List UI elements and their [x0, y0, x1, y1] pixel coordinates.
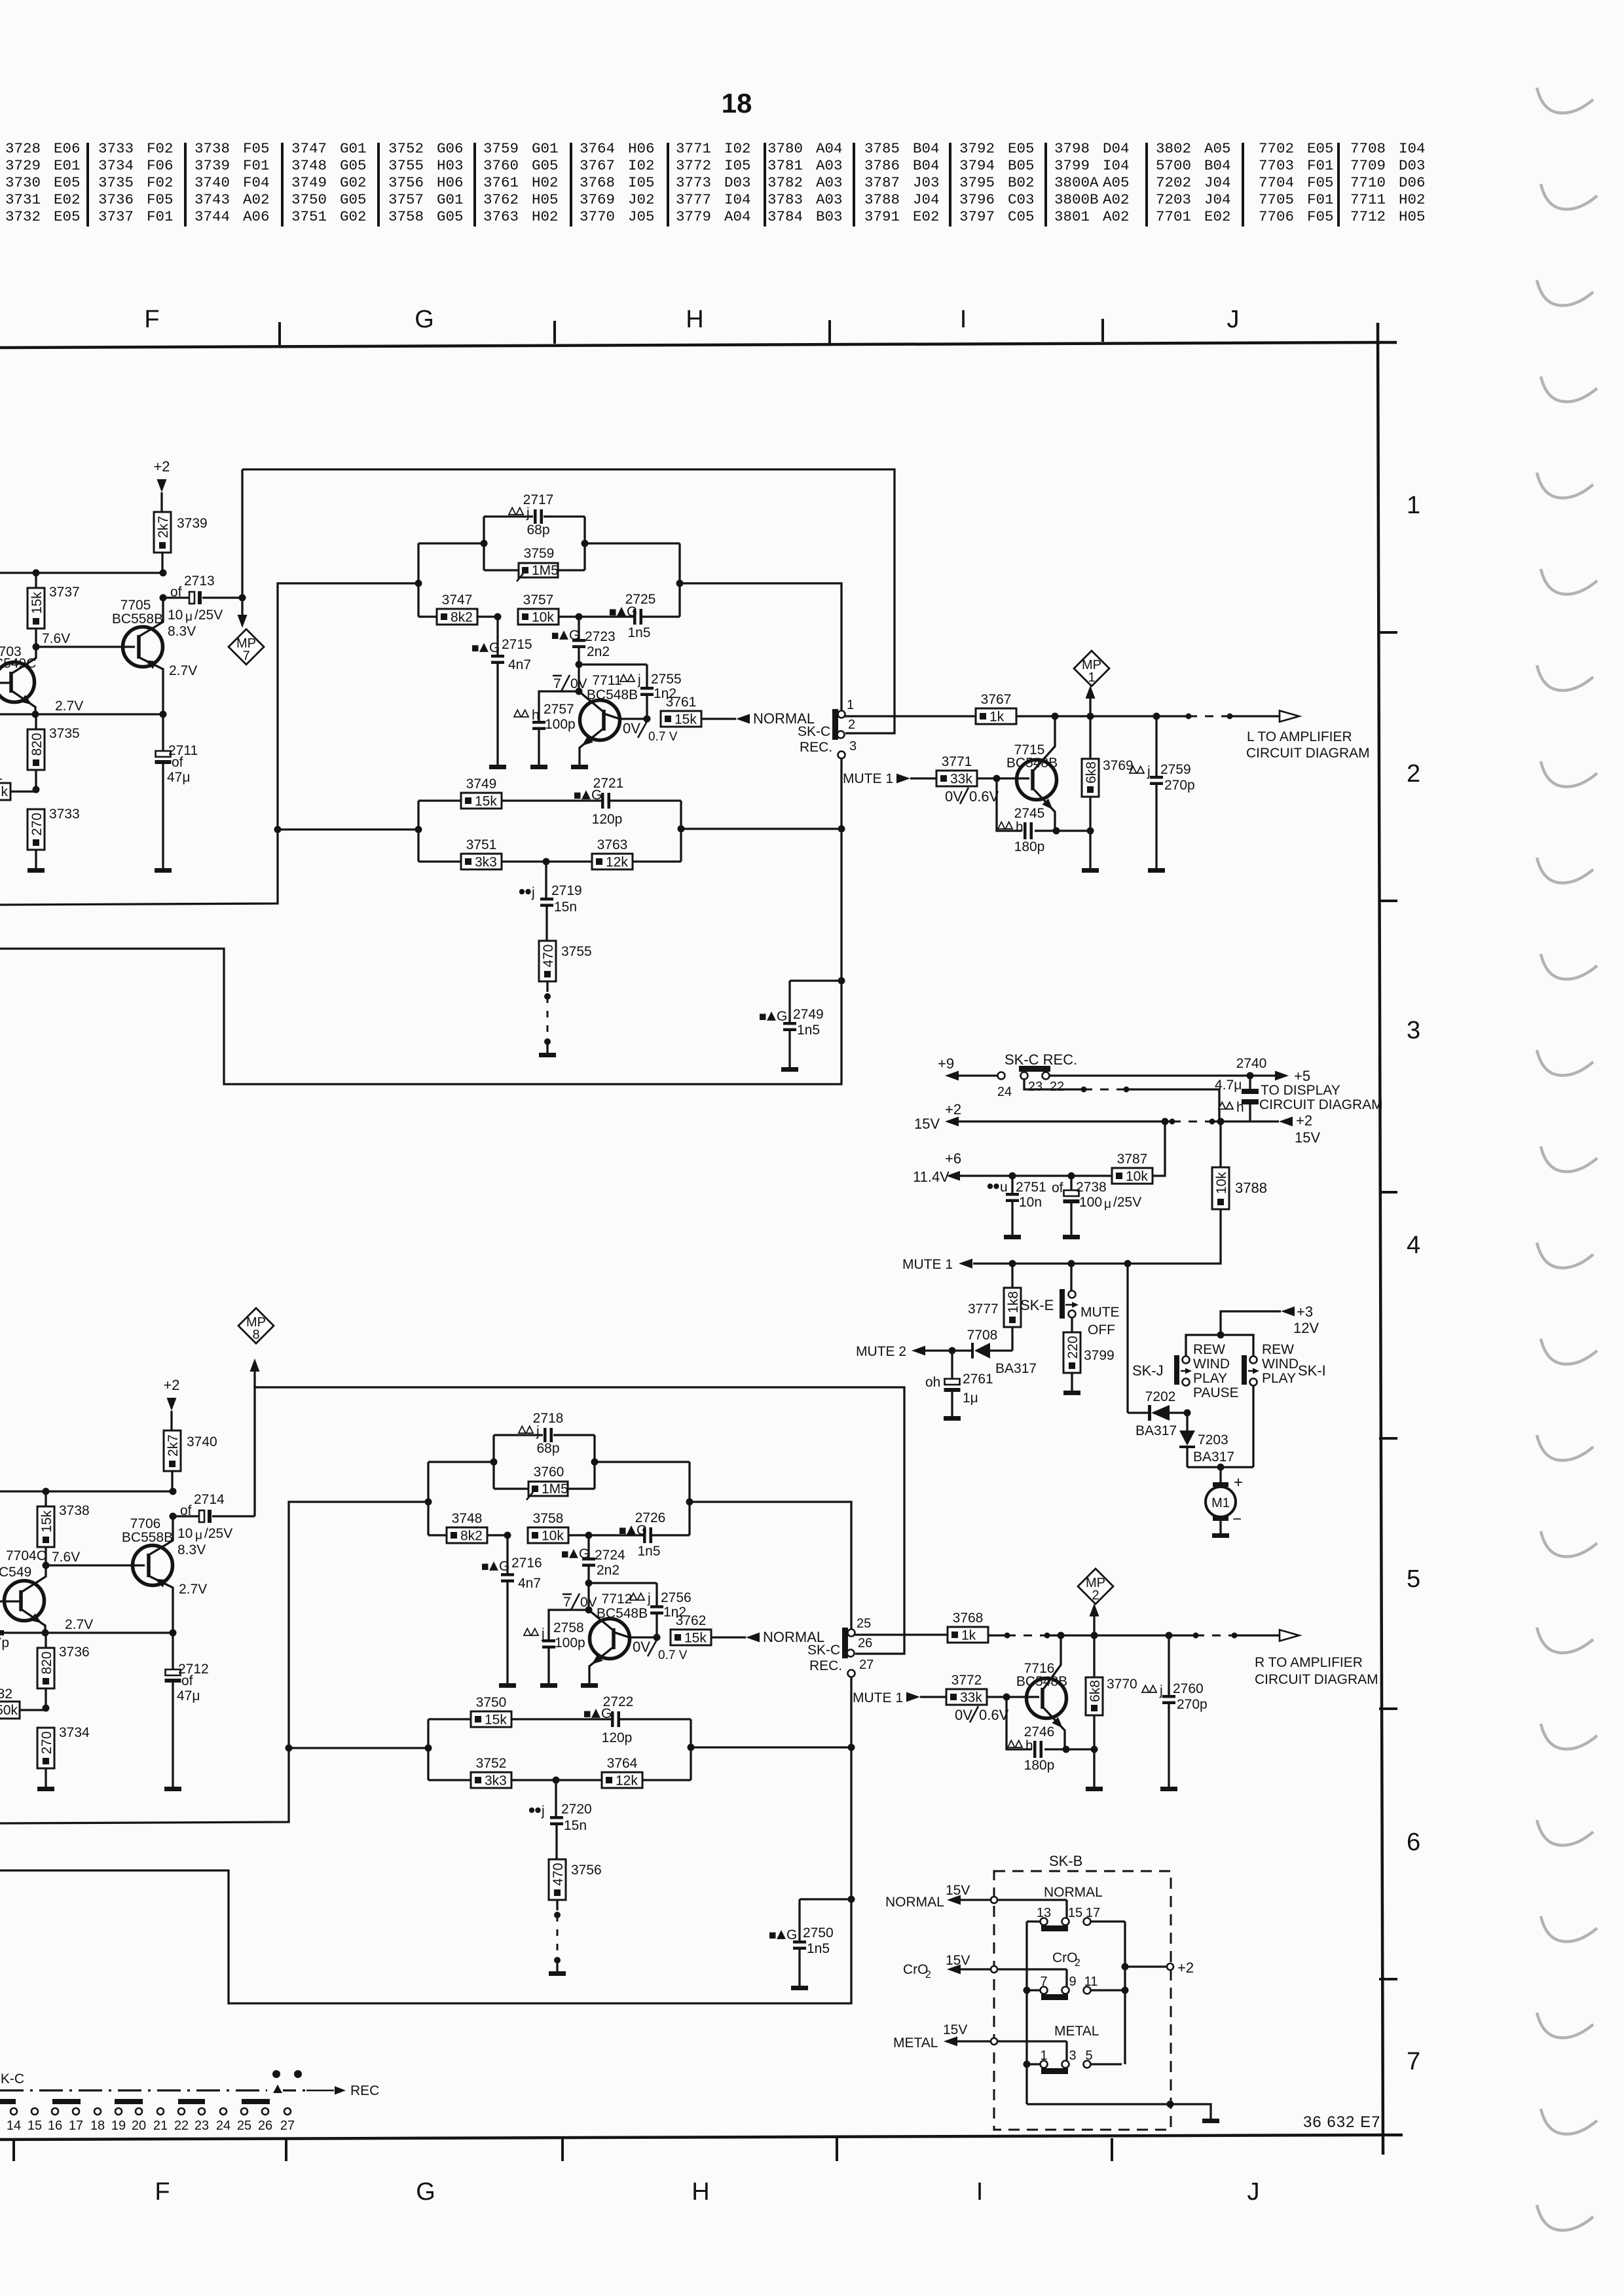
switch SK-E: [1020, 1264, 1079, 1319]
svg-text:1n5: 1n5: [627, 625, 650, 640]
svg-text:7712: 7712: [602, 1592, 633, 1607]
wire lower loop L input: [0, 583, 418, 905]
wire motor node: [1187, 1385, 1253, 1483]
svg-text:15k: 15k: [39, 1510, 54, 1533]
svg-text:2: 2: [848, 718, 855, 732]
capacitor 2721 120p: [574, 776, 681, 827]
svg-text:3783: 3783: [767, 191, 803, 208]
svg-text:REC.: REC.: [809, 1658, 842, 1673]
svg-text:h: h: [1236, 1100, 1244, 1115]
svg-text:2761: 2761: [963, 1372, 993, 1387]
svg-text:2758: 2758: [553, 1620, 584, 1635]
svg-text:2760: 2760: [1173, 1681, 1204, 1696]
svg-text:3768: 3768: [580, 174, 615, 191]
svg-text:3787: 3787: [864, 174, 900, 191]
svg-text:3800A: 3800A: [1054, 174, 1099, 191]
svg-text:G: G: [489, 640, 500, 655]
svg-text:3737: 3737: [98, 208, 134, 225]
svg-text:3798: 3798: [1054, 140, 1090, 157]
svg-text:120p: 120p: [602, 1730, 633, 1745]
svg-text:4.7μ: 4.7μ: [1215, 1078, 1242, 1093]
label 7/0V node R: [563, 1594, 597, 1610]
svg-text:F02: F02: [147, 174, 174, 191]
svg-text:27: 27: [859, 1658, 874, 1672]
ground 2758: [540, 1683, 557, 1688]
svg-text:15V: 15V: [1295, 1129, 1320, 1146]
svg-text:SK-B: SK-B: [1049, 1853, 1082, 1869]
svg-text:+5: +5: [1294, 1068, 1310, 1084]
grid letters bottom: [155, 2178, 1259, 2206]
grid row numbers: [1407, 492, 1420, 2075]
transistor 7715 BC548B: [1006, 716, 1058, 831]
svg-text:h: h: [532, 708, 540, 723]
svg-text:7203: 7203: [1198, 1432, 1228, 1448]
test point MP7: [229, 469, 264, 665]
svg-text:3747: 3747: [442, 592, 473, 608]
wire output row L: [1016, 711, 1299, 722]
node base 7705 / 7.6V: [33, 631, 136, 651]
svg-text:18: 18: [722, 88, 752, 118]
svg-text:3748: 3748: [291, 157, 327, 174]
svg-text:G01: G01: [340, 140, 367, 157]
network 2 L outline: [418, 801, 841, 862]
svg-text:R TO AMPLIFIER: R TO AMPLIFIER: [1255, 1655, 1363, 1670]
svg-text:C03: C03: [1008, 191, 1035, 208]
svg-text:1k: 1k: [989, 710, 1005, 725]
resistor 3747 8k2: [418, 592, 498, 625]
arrow MUTE 2: [856, 1344, 925, 1359]
svg-text:3731: 3731: [5, 191, 41, 208]
svg-text:k: k: [1, 784, 9, 799]
svg-text:BA317: BA317: [1135, 1423, 1177, 1438]
svg-text:25: 25: [237, 2119, 251, 2133]
svg-text:3729: 3729: [5, 157, 41, 174]
ground 3799: [1063, 1391, 1080, 1395]
svg-text:15k: 15k: [485, 1713, 507, 1728]
svg-text:3740: 3740: [187, 1434, 217, 1449]
svg-text:4n7: 4n7: [508, 657, 531, 672]
component location table: [5, 140, 1426, 227]
svg-text:A04: A04: [724, 208, 751, 225]
label 0V/0.6V R: [955, 1706, 1009, 1723]
svg-text:3: 3: [849, 739, 857, 754]
svg-text:I02: I02: [628, 157, 655, 174]
network 2 L input wire: [274, 826, 422, 833]
label 0V/0.6V: [945, 788, 999, 805]
svg-text:of: of: [181, 1673, 193, 1688]
svg-text:16: 16: [48, 2119, 62, 2133]
svg-text:3802: 3802: [1156, 140, 1191, 157]
svg-text:3738: 3738: [59, 1503, 90, 1518]
svg-text:of: of: [170, 585, 182, 600]
svg-text:10k: 10k: [1214, 1172, 1229, 1194]
transistor 7706 BC558B: [122, 1516, 207, 1633]
svg-text:J02: J02: [628, 191, 655, 208]
wire SK-C contact27 loop R: [0, 1677, 855, 2003]
ground 3770: [1086, 1787, 1103, 1791]
resistor 3759 1M5 (adjustable): [484, 546, 585, 581]
svg-text:15k: 15k: [475, 794, 497, 809]
svg-text:D04: D04: [1103, 140, 1130, 157]
svg-text:3759: 3759: [524, 546, 555, 561]
svg-text:3756: 3756: [571, 1863, 602, 1878]
svg-text:REW: REW: [1193, 1342, 1225, 1357]
wire SK-C contact3 loop L: [0, 758, 845, 1084]
svg-text:27: 27: [280, 2119, 295, 2133]
svg-text:3796: 3796: [959, 191, 995, 208]
svg-text:470: 470: [541, 944, 556, 967]
svg-text:j: j: [1147, 764, 1151, 779]
switch SK-J: [1132, 1355, 1192, 1386]
svg-text:G: G: [637, 1523, 647, 1538]
filter block L outline: [418, 517, 680, 617]
svg-text:24: 24: [216, 2119, 231, 2133]
wire top rail L to SK-C contact 2: [242, 469, 895, 733]
svg-text:B05: B05: [1008, 157, 1035, 174]
svg-text:0V: 0V: [580, 1595, 597, 1610]
svg-text:9: 9: [1069, 1975, 1076, 1989]
svg-text:7: 7: [553, 676, 561, 691]
svg-text:3747: 3747: [291, 140, 327, 157]
svg-text:7709: 7709: [1350, 157, 1386, 174]
svg-text:10k: 10k: [532, 610, 554, 625]
svg-text:3768: 3768: [953, 1611, 984, 1626]
svg-text:15: 15: [1068, 1906, 1082, 1920]
svg-text:3760: 3760: [534, 1465, 564, 1480]
svg-text:of: of: [172, 755, 183, 770]
svg-text:8k2: 8k2: [451, 610, 473, 625]
capacitor 2725 1n5: [576, 592, 680, 640]
svg-text:E05: E05: [54, 174, 81, 191]
svg-text:5: 5: [1407, 1565, 1420, 1593]
capacitor 2732 stub (clipped): [0, 1630, 9, 1650]
svg-text:G05: G05: [532, 157, 559, 174]
wire +3 12V feed: [1186, 1303, 1319, 1357]
svg-text:1n5: 1n5: [637, 1544, 660, 1559]
svg-text:/25V: /25V: [204, 1526, 232, 1541]
svg-text:μ: μ: [185, 610, 193, 624]
svg-text:oh: oh: [925, 1375, 940, 1390]
resistor 3764 12k: [553, 1756, 692, 1789]
svg-text:3739: 3739: [194, 157, 230, 174]
capacitor 2750 1n5: [769, 1899, 851, 1986]
svg-text:−: −: [1232, 1510, 1242, 1528]
wire collector row 7705: [0, 570, 167, 577]
transistor 7703 BC549C: [0, 644, 36, 714]
svg-text:3770: 3770: [580, 208, 615, 225]
svg-text:E05: E05: [54, 208, 81, 225]
resistor 3787 10k: [1112, 1121, 1165, 1184]
svg-text:I: I: [976, 2178, 984, 2206]
svg-text:6k8: 6k8: [1084, 761, 1099, 784]
svg-text:2: 2: [1075, 1958, 1080, 1969]
svg-text:270: 270: [39, 1731, 54, 1754]
svg-text:22: 22: [174, 2119, 189, 2133]
svg-text:3758: 3758: [388, 208, 424, 225]
svg-text:3770: 3770: [1107, 1677, 1137, 1692]
svg-text:3786: 3786: [864, 157, 900, 174]
svg-text:REC.: REC.: [800, 740, 832, 755]
svg-text:BA317: BA317: [995, 1361, 1037, 1376]
ground 2749: [781, 1067, 798, 1072]
svg-text:2751: 2751: [1016, 1180, 1046, 1195]
svg-text:2.7V: 2.7V: [65, 1617, 93, 1632]
svg-text:7712: 7712: [1350, 208, 1386, 225]
svg-text:2: 2: [925, 1969, 931, 1980]
wire emitter 7705 ground leg: [0, 699, 167, 718]
svg-text:A06: A06: [243, 208, 270, 225]
svg-text:3772: 3772: [951, 1673, 982, 1688]
node filter input R: [425, 1499, 432, 1506]
label SK-C REC upper: [798, 724, 832, 755]
svg-text:PLAY: PLAY: [1262, 1371, 1296, 1386]
svg-text:CIRCUIT DIAGRAM: CIRCUIT DIAGRAM: [1246, 746, 1370, 761]
svg-text:E02: E02: [54, 191, 81, 208]
svg-text:I04: I04: [1399, 140, 1426, 157]
svg-text:820: 820: [29, 733, 45, 756]
svg-text:470: 470: [551, 1863, 566, 1886]
label MUTE OFF: [1080, 1305, 1120, 1338]
svg-text:G01: G01: [437, 191, 464, 208]
svg-text:7202: 7202: [1145, 1389, 1176, 1404]
svg-text:C05: C05: [1008, 208, 1035, 225]
svg-text:15V: 15V: [946, 1883, 970, 1898]
ground 2757: [530, 765, 547, 769]
svg-text:MUTE 2: MUTE 2: [856, 1344, 906, 1359]
svg-text:7706: 7706: [130, 1516, 161, 1531]
svg-text:17: 17: [1086, 1906, 1100, 1920]
node base 7706 / 7.6V: [43, 1550, 145, 1569]
svg-text:A04: A04: [816, 140, 843, 157]
svg-text:0.6V: 0.6V: [979, 1707, 1009, 1723]
svg-text:3752: 3752: [476, 1756, 507, 1771]
resistor 3749 15k: [418, 776, 601, 809]
wire MUTE 1 row: [902, 1257, 1132, 1272]
svg-text:21: 21: [153, 2119, 168, 2133]
wire SK-B verticals: [1027, 1922, 1125, 2104]
svg-text:7704C: 7704C: [6, 1548, 46, 1563]
svg-text:of: of: [180, 1503, 192, 1518]
svg-text:36 632 E7: 36 632 E7: [1303, 2113, 1380, 2131]
svg-text:3738: 3738: [194, 140, 230, 157]
ground 3769: [1082, 868, 1099, 873]
svg-text:A03: A03: [816, 157, 843, 174]
ground emitter 7712: [581, 1683, 598, 1688]
capacitor 2712 47u: [165, 1633, 209, 1787]
svg-text:2757: 2757: [544, 702, 574, 717]
resistor 3770 6k8: [1086, 1635, 1137, 1787]
svg-text:G01: G01: [532, 140, 559, 157]
svg-text:180p: 180p: [1014, 839, 1045, 854]
svg-text:+: +: [1234, 1474, 1243, 1491]
svg-text:+2: +2: [153, 458, 170, 475]
capacitor 2746 180p: [1006, 1697, 1098, 1773]
svg-text:BC548B: BC548B: [597, 1606, 648, 1621]
svg-text:7706: 7706: [1259, 208, 1294, 225]
svg-text:7: 7: [563, 1595, 571, 1610]
svg-text:BC548B: BC548B: [1006, 756, 1058, 771]
svg-text:0.7 V: 0.7 V: [648, 730, 678, 744]
switch SK-C mechanical line: [0, 2070, 379, 2098]
svg-text:3780: 3780: [767, 140, 803, 157]
wire CrO2 feed: [903, 1953, 1067, 1987]
svg-text:F01: F01: [147, 208, 174, 225]
svg-text:18: 18: [90, 2119, 105, 2133]
wire MUTE1 to 7202: [1126, 1264, 1128, 1413]
svg-text:47μ: 47μ: [167, 770, 190, 785]
capacitor 2720 15n: [529, 1780, 592, 1859]
svg-text:3755: 3755: [388, 157, 424, 174]
label 0V/0.7V R: [633, 1639, 688, 1662]
svg-text:1μ: 1μ: [963, 1391, 978, 1406]
svg-text:H: H: [692, 2178, 709, 2206]
svg-text:SK-E: SK-E: [1020, 1297, 1054, 1313]
svg-text:F05: F05: [243, 140, 270, 157]
svg-text:3760: 3760: [483, 157, 519, 174]
svg-text:H02: H02: [532, 174, 559, 191]
svg-text:M1: M1: [1211, 1496, 1230, 1510]
label L TO AMPLIFIER: [1246, 729, 1370, 761]
svg-text:G: G: [569, 628, 580, 643]
svg-text:2746: 2746: [1024, 1724, 1055, 1740]
svg-text:3779: 3779: [676, 208, 711, 225]
node filter input L: [415, 580, 422, 587]
svg-text:2716: 2716: [511, 1556, 542, 1571]
resistor 3731 1k (clipped): [0, 768, 36, 800]
arrow MUTE 1 input R: [853, 1690, 946, 1705]
svg-text:15k: 15k: [684, 1631, 707, 1646]
svg-text:1k8: 1k8: [1006, 1291, 1021, 1313]
svg-text:j: j: [536, 1424, 540, 1439]
svg-text:1: 1: [0, 768, 3, 783]
resistor 3738 15k: [37, 1491, 90, 1565]
svg-text:7710: 7710: [1350, 174, 1386, 191]
resistor 3771 33k: [936, 754, 1029, 787]
svg-text:BC549: BC549: [0, 1565, 31, 1580]
svg-text:SK-C: SK-C: [0, 2071, 24, 2086]
svg-text:7704: 7704: [1259, 174, 1294, 191]
svg-text:CIRCUIT DIAGRAM: CIRCUIT DIAGRAM: [1259, 1097, 1383, 1112]
resistor 3757 10k: [494, 592, 580, 625]
svg-text:MUTE: MUTE: [1080, 1305, 1120, 1320]
svg-text:3728: 3728: [5, 140, 41, 157]
svg-text:μ: μ: [195, 1529, 202, 1542]
svg-text:270p: 270p: [1164, 778, 1195, 793]
svg-text:3750: 3750: [291, 191, 327, 208]
ground 3734: [37, 1787, 54, 1791]
svg-text:2745: 2745: [1014, 806, 1045, 821]
ground 2712: [164, 1787, 181, 1791]
arrow NORMAL L: [736, 710, 815, 727]
svg-text:E05: E05: [1008, 140, 1035, 157]
resistor 3735 820: [28, 714, 80, 790]
resistor 3799 220: [1063, 1317, 1115, 1391]
svg-text:3740: 3740: [194, 174, 230, 191]
svg-text:8.3V: 8.3V: [168, 624, 196, 639]
svg-text:REC: REC: [350, 2083, 379, 2098]
ground 2750: [791, 1986, 808, 1990]
test point MP1: [1074, 651, 1109, 716]
svg-text:J: J: [1227, 306, 1240, 333]
svg-text:+2: +2: [163, 1377, 179, 1393]
switch SK-I: [1242, 1355, 1326, 1386]
capacitor 2717 68p: [484, 492, 585, 538]
svg-text:8.3V: 8.3V: [177, 1542, 206, 1558]
svg-text:BC548B: BC548B: [1016, 1674, 1067, 1689]
svg-text:G06: G06: [437, 140, 464, 157]
diode 7708 BA317: [925, 1328, 1037, 1376]
svg-text:j: j: [637, 672, 641, 687]
resistor 3769 6k8: [1082, 716, 1134, 868]
svg-text:G: G: [416, 2178, 435, 2206]
resistor 3737 15k: [28, 573, 80, 647]
svg-text:MUTE 1: MUTE 1: [843, 771, 893, 786]
transistor 7716 BC548B: [1016, 1635, 1067, 1749]
resistor 3733 270: [28, 786, 80, 869]
resistor 3758 10k: [504, 1511, 589, 1544]
svg-text:2756: 2756: [661, 1590, 692, 1605]
svg-text:H06: H06: [437, 174, 464, 191]
svg-text:3800B: 3800B: [1054, 191, 1099, 208]
ground 2715: [489, 765, 506, 769]
svg-text:3763: 3763: [483, 208, 519, 225]
resistor 3788 10k: [973, 1121, 1267, 1264]
svg-text:2719: 2719: [551, 883, 582, 898]
svg-text:SK-C: SK-C: [798, 724, 830, 739]
capacitor 2740 4.7u: [1215, 1056, 1266, 1121]
svg-text:7705: 7705: [120, 598, 151, 613]
svg-text:I02: I02: [724, 140, 751, 157]
svg-text:3791: 3791: [864, 208, 900, 225]
svg-text:68p: 68p: [526, 522, 549, 538]
svg-text:TO DISPLAY: TO DISPLAY: [1261, 1083, 1340, 1098]
resistor 3755 470: [539, 941, 592, 1053]
resistor 3734 270: [37, 1705, 90, 1787]
svg-text:REW: REW: [1262, 1342, 1294, 1357]
schematic border frame: [0, 319, 1403, 2161]
capacitor 2723 2n2: [552, 617, 616, 665]
svg-text:3749: 3749: [291, 174, 327, 191]
filter block R outline: [428, 1435, 690, 1535]
wire lower loop R input: [0, 1502, 428, 1823]
wire METAL feed: [893, 2022, 1067, 2061]
capacitor 2714 10u/25V: [170, 1492, 255, 1542]
svg-text:BA317: BA317: [1193, 1449, 1234, 1465]
svg-text:SK-I: SK-I: [1298, 1362, 1326, 1379]
diode 7202 BA317: [1128, 1389, 1191, 1438]
svg-text:7703: 7703: [1259, 157, 1294, 174]
arrow NORMAL R: [746, 1629, 824, 1645]
svg-text:3757: 3757: [388, 191, 424, 208]
svg-text:7705: 7705: [1259, 191, 1294, 208]
wire collector row 7706: [0, 1488, 177, 1495]
capacitor 2745 180p: [997, 778, 1094, 854]
svg-text:7711: 7711: [592, 673, 621, 688]
svg-text:2720: 2720: [561, 1802, 592, 1817]
svg-text:7.6V: 7.6V: [42, 631, 70, 646]
svg-text:2.7V: 2.7V: [179, 1582, 207, 1597]
svg-text:j: j: [1159, 1683, 1163, 1698]
wire filter output L to SK-C contact 1: [676, 580, 842, 711]
svg-text:MUTE 1: MUTE 1: [902, 1257, 953, 1272]
svg-text:NORMAL: NORMAL: [1044, 1885, 1103, 1900]
svg-text:3764: 3764: [580, 140, 615, 157]
capacitor 2726 1n5: [585, 1510, 690, 1559]
svg-text:3762: 3762: [483, 191, 519, 208]
svg-text:u: u: [1000, 1180, 1008, 1195]
ground 2759: [1148, 868, 1165, 873]
svg-text:3799: 3799: [1054, 157, 1090, 174]
